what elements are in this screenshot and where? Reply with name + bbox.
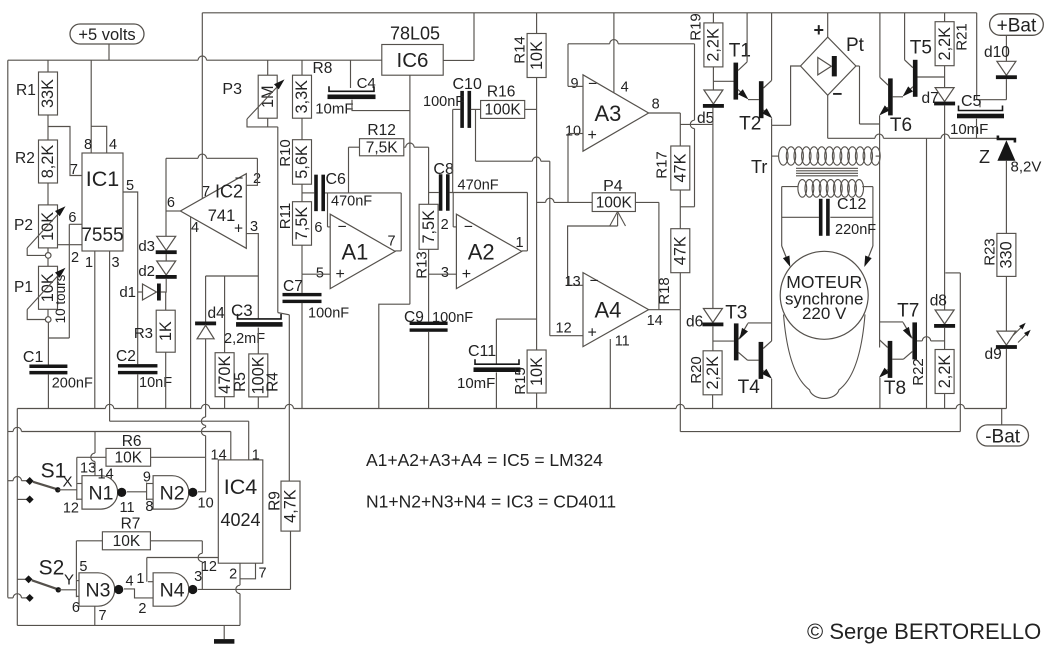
wire R3 to 0V: [165, 352, 167, 408]
svg-text:T6: T6: [890, 115, 912, 136]
svg-text:13: 13: [565, 274, 581, 290]
ground symbol: [223, 625, 225, 639]
svg-text:N1+N2+N3+N4 = IC3 = CD4011: N1+N2+N3+N4 = IC3 = CD4011: [366, 492, 616, 512]
svg-text:+5 volts: +5 volts: [78, 26, 135, 44]
op-amp A3: [583, 75, 649, 151]
svg-text:5: 5: [126, 178, 134, 194]
resistor R13: [419, 204, 438, 249]
wire C3 to R4: [257, 328, 259, 354]
svg-text:C6: C6: [326, 171, 347, 188]
svg-text:IC1: IC1: [86, 167, 119, 191]
IC1 7555: [82, 153, 123, 251]
svg-text:2,2K: 2,2K: [705, 28, 723, 62]
wire R4 to 0V: [257, 397, 259, 409]
svg-text:4: 4: [109, 137, 117, 153]
svg-text:200nF: 200nF: [52, 376, 93, 392]
svg-text:T3: T3: [725, 303, 747, 324]
svg-text:10mF: 10mF: [315, 101, 353, 118]
LED d9: [997, 331, 1016, 345]
resistor R20: [703, 351, 722, 395]
svg-text:4: 4: [191, 220, 199, 236]
wire +Bat to d10: [1005, 35, 1007, 61]
wire +5V rail: [8, 59, 198, 61]
svg-text:T2: T2: [739, 114, 761, 135]
svg-text:−: −: [590, 273, 599, 290]
wire d7 down to d8: [944, 105, 946, 310]
svg-text:C10: C10: [453, 76, 482, 93]
resistor R21: [944, 13, 946, 22]
wire IC4 pin 2 ground: [239, 563, 241, 585]
wire R7 right to N4 out: [150, 540, 202, 542]
transistor T3: [734, 323, 739, 360]
capacitor C3: [257, 276, 259, 319]
capacitor C7: [301, 274, 303, 293]
wire C11 branch: [496, 318, 536, 320]
svg-text:470nF: 470nF: [331, 194, 372, 210]
svg-text:220nF: 220nF: [835, 222, 876, 238]
svg-text:10K: 10K: [113, 533, 141, 550]
svg-text:10K: 10K: [115, 450, 143, 467]
svg-text:10: 10: [565, 124, 581, 140]
svg-text:T4: T4: [738, 377, 761, 398]
svg-text:d10: d10: [984, 44, 1010, 61]
wire R23 to d9: [1005, 276, 1007, 331]
capacitor C8: [429, 192, 439, 194]
svg-text:C7: C7: [283, 278, 303, 295]
svg-text:7: 7: [70, 162, 78, 178]
svg-text:−: −: [235, 170, 244, 187]
wire IC2 output node: [166, 210, 180, 212]
svg-text:47K: 47K: [672, 236, 690, 265]
svg-text:10K: 10K: [528, 357, 546, 386]
svg-text:741: 741: [208, 207, 236, 225]
capacitor C9: [410, 322, 448, 325]
svg-text:C11: C11: [468, 343, 496, 360]
wire P4 left stub: [537, 201, 546, 203]
node +Bat: [990, 14, 1044, 36]
wire C10 left to A2 node: [453, 108, 461, 110]
svg-text:N1: N1: [89, 482, 114, 504]
wire motor lead arrows: [782, 246, 789, 263]
wire R18 to A4 out: [679, 273, 681, 310]
wire A3 pin 9 feedback: [568, 85, 583, 87]
svg-text:R20: R20: [688, 356, 705, 384]
svg-text:R8: R8: [313, 60, 333, 77]
svg-text:10K: 10K: [39, 212, 57, 241]
wire R21 to d7: [944, 66, 946, 88]
svg-text:11: 11: [120, 500, 135, 516]
capacitor C1: [29, 365, 67, 369]
capacitor C11: [475, 359, 519, 364]
resistor R1: [39, 72, 58, 115]
svg-text:220 V: 220 V: [802, 304, 847, 323]
wire A3 pin10 drop: [567, 134, 569, 203]
diode d3: [157, 236, 176, 250]
svg-text:2,2K: 2,2K: [704, 356, 722, 390]
svg-text:7: 7: [259, 566, 267, 582]
resistor R9: [281, 481, 300, 531]
svg-text:5,6K: 5,6K: [293, 145, 311, 179]
wire +Bat top rail: [202, 12, 976, 14]
svg-text:1: 1: [136, 571, 144, 587]
motor MOTEUR synchrone 220V: [780, 251, 868, 339]
svg-text:10 tours: 10 tours: [53, 274, 68, 323]
wire A3 output: [649, 112, 681, 114]
wire IC6 input from +Bat: [443, 59, 474, 61]
potentiometer P2: [39, 205, 58, 248]
IC6 78L05: [382, 45, 443, 76]
wire d5 to d6 (A3 drive line): [712, 108, 714, 309]
wire P4 wiper to A4 pin13: [617, 214, 619, 227]
wire IC1 pin 3 down: [109, 251, 111, 421]
resistor R7: [102, 532, 150, 550]
svg-text:A1: A1: [341, 239, 368, 264]
svg-text:R4: R4: [265, 372, 282, 392]
wire A1 pin 5: [302, 273, 330, 275]
capacitor C12: [782, 216, 819, 218]
wire d10 to node: [1005, 79, 1007, 100]
svg-text:1K: 1K: [157, 321, 175, 341]
capacitor C4: [350, 60, 352, 88]
svg-text:10mF: 10mF: [457, 375, 495, 392]
svg-text:4: 4: [621, 80, 629, 96]
wire P4 right to A4 output: [635, 201, 659, 203]
svg-text:2: 2: [441, 217, 449, 233]
svg-text:4024: 4024: [220, 510, 260, 530]
transistor T1: [734, 63, 739, 100]
resistor R18: [671, 229, 690, 273]
svg-text:9: 9: [571, 76, 579, 92]
wire A2 output + feedback: [522, 250, 528, 252]
wire P1 to C1: [47, 322, 49, 364]
diode d4: [195, 322, 216, 326]
svg-text:100nF: 100nF: [308, 306, 349, 322]
node P2-P1 junction circle: [45, 253, 51, 259]
svg-text:+: +: [234, 221, 243, 238]
wire A4 out lower run to right: [680, 431, 960, 433]
wire d8 to T7 base / R22: [944, 328, 946, 350]
capacitor C2: [118, 364, 158, 367]
wire A3 out branch to d5-d6 line: [680, 123, 713, 125]
wire R17-R18: [679, 190, 681, 229]
resistor R8: [301, 60, 303, 75]
svg-text:R11: R11: [277, 203, 294, 229]
wire R2-P2: [47, 183, 49, 205]
diode d8: [935, 310, 954, 324]
wire IC1 pin 4: [91, 126, 107, 153]
svg-text:R19: R19: [687, 13, 704, 41]
svg-text:2: 2: [71, 250, 79, 266]
diode d10: [997, 61, 1016, 75]
wire A3 pin 10 stub: [568, 133, 583, 135]
svg-text:d5: d5: [697, 110, 714, 127]
wire A4 output: [649, 309, 681, 311]
wire bridge top to +Bat rail: [827, 13, 829, 37]
svg-text:d7: d7: [922, 90, 939, 107]
wire 2+6 node down to C1 top: [68, 245, 70, 338]
resistor R15: [527, 350, 546, 393]
svg-text:10K: 10K: [528, 41, 546, 70]
svg-text:7,5K: 7,5K: [293, 207, 311, 241]
svg-text:10mF: 10mF: [950, 121, 988, 138]
wire d9 to 0V rail end: [1005, 349, 1007, 409]
svg-text:C2: C2: [116, 348, 136, 365]
wire A4 pin 12: [550, 335, 583, 337]
wire d4-pin3 net: [206, 275, 259, 277]
wire C10 right to R16: [471, 108, 481, 110]
transistor T2: [759, 81, 764, 118]
svg-text:10nF: 10nF: [139, 375, 172, 391]
svg-text:R6: R6: [122, 433, 142, 450]
svg-text:1: 1: [85, 255, 93, 271]
svg-text:R16: R16: [487, 84, 515, 101]
wire R11 to pin5 junction: [301, 245, 303, 274]
svg-text:47K: 47K: [672, 153, 690, 182]
wire secondary right down: [872, 187, 874, 246]
diode d5: [704, 90, 723, 104]
wire R8-R10: [301, 118, 303, 140]
svg-text:4: 4: [126, 574, 134, 590]
resistor R16: [481, 101, 525, 119]
svg-text:Z: Z: [979, 147, 990, 167]
wire A2 pin 3: [429, 273, 457, 275]
svg-text:Y: Y: [64, 572, 74, 589]
wire digital bottom ground: [17, 624, 240, 626]
svg-text:R12: R12: [367, 122, 395, 139]
svg-text:T5: T5: [910, 38, 932, 59]
svg-text:d4: d4: [208, 305, 226, 322]
wire R13 to C9 with A2 pin3 tee: [428, 249, 430, 321]
svg-text:3: 3: [112, 255, 120, 271]
svg-text:d2: d2: [138, 263, 155, 280]
svg-text:6: 6: [68, 210, 76, 226]
svg-text:−: −: [833, 85, 843, 104]
svg-text:C8: C8: [433, 161, 454, 178]
wire 0V bottom rail: [17, 408, 105, 410]
svg-text:1: 1: [252, 448, 260, 464]
svg-text:12: 12: [556, 321, 572, 337]
wire N2 out stub: [198, 491, 206, 493]
wire d6 to T3 base / R20: [712, 326, 714, 351]
potentiometer P1: [39, 266, 58, 309]
wire N4 out to R9: [198, 588, 291, 590]
transistor T8: [888, 341, 893, 378]
svg-text:6: 6: [167, 195, 175, 211]
svg-text:3,3K: 3,3K: [293, 80, 311, 114]
svg-text:5: 5: [79, 559, 87, 575]
wire VDD line to IC4 pin 14: [8, 431, 13, 433]
wire N1 out to N2: [127, 491, 147, 493]
svg-text:+: +: [814, 20, 825, 40]
svg-text:−: −: [464, 219, 473, 236]
wire A4 pin12 net: [475, 109, 477, 161]
svg-text:d3: d3: [138, 238, 155, 255]
svg-text:R22: R22: [910, 358, 927, 386]
svg-text:R2: R2: [15, 150, 35, 167]
svg-text:R21: R21: [953, 23, 970, 51]
wire bias line down: [536, 78, 538, 351]
svg-text:A2: A2: [468, 239, 495, 264]
svg-text:R7: R7: [121, 516, 141, 533]
wire d3-d2: [165, 254, 167, 261]
wire P3 down the middle: [277, 127, 279, 313]
wire T2 emitter to bridge and primary: [771, 118, 773, 125]
wire right power column to primary/T7/T8: [879, 124, 881, 348]
svg-text:1: 1: [516, 235, 524, 251]
resistor R11: [293, 202, 312, 246]
wire R1 top: [47, 60, 49, 72]
svg-text:d1: d1: [119, 284, 136, 301]
wire R12 right to R13: [404, 146, 406, 148]
wire minus line: [828, 137, 875, 139]
wire IC1 pin3 to IC4 pin 1: [110, 420, 249, 422]
wire IC1 pin 1 to 0V: [94, 251, 96, 409]
wire IC4 pin 7 ground: [240, 563, 256, 579]
wire N3 pin 7 ground: [94, 606, 96, 625]
wire R19 to d5 / T1 base: [712, 67, 714, 90]
svg-text:7555: 7555: [81, 225, 123, 246]
svg-text:8,2K: 8,2K: [39, 145, 57, 179]
svg-text:Tr: Tr: [751, 157, 767, 177]
node P1 bottom circle: [45, 317, 51, 323]
resistor R5: [215, 353, 234, 397]
svg-text:C1: C1: [23, 349, 44, 366]
diode d2: [157, 261, 176, 275]
wire IC6 ground pin: [409, 75, 411, 304]
resistor R12: [360, 139, 404, 156]
svg-text:A4: A4: [594, 298, 621, 323]
svg-text:7,5K: 7,5K: [366, 139, 399, 156]
svg-text:C3: C3: [231, 301, 253, 320]
svg-text:7: 7: [99, 608, 107, 624]
wire R7 left to N3 inputs: [76, 540, 102, 542]
svg-text:100nF: 100nF: [432, 310, 473, 326]
transistor T5: [913, 60, 918, 97]
svg-text:100K: 100K: [596, 194, 633, 211]
op-amp IC2 741: [180, 174, 246, 249]
resistor R2: [39, 140, 58, 183]
wire R12 left to A1 node: [349, 146, 360, 148]
svg-text:A3: A3: [594, 101, 621, 126]
svg-text:8: 8: [652, 97, 660, 113]
svg-text:−: −: [338, 219, 347, 236]
svg-text:R15: R15: [512, 367, 529, 395]
svg-text:R1: R1: [16, 82, 36, 99]
wire bridge minus down to 0V rail: [926, 138, 928, 408]
svg-text:100K: 100K: [485, 102, 522, 119]
capacitor C10: [460, 91, 464, 128]
svg-text:C9: C9: [404, 309, 424, 326]
wire d2 to R3 junction: [165, 279, 168, 292]
svg-text:R13: R13: [414, 251, 431, 279]
svg-text:11: 11: [615, 334, 630, 350]
svg-text:R10: R10: [277, 139, 294, 167]
wire +5V left border: [7, 60, 9, 597]
svg-text:P2: P2: [14, 217, 33, 234]
svg-text:-Bat: -Bat: [985, 426, 1021, 447]
wire d4 down to digital: [205, 339, 207, 417]
svg-text:T7: T7: [897, 301, 919, 322]
wire junction to IC1 pin 7: [48, 127, 82, 176]
svg-text:−: −: [588, 76, 597, 93]
svg-text:33K: 33K: [39, 79, 57, 108]
svg-text:7,5K: 7,5K: [420, 210, 438, 244]
wire R5 to 0V: [224, 397, 226, 409]
wire N3 out to N4: [124, 589, 153, 598]
svg-text:N3: N3: [86, 580, 111, 602]
svg-text:+: +: [588, 325, 597, 342]
svg-text:S2: S2: [39, 557, 65, 580]
wire IC2 feedback to pin 2: [166, 157, 198, 159]
wire C8 right / A2 pin2 node: [450, 192, 528, 194]
wire R16 right to bias line: [525, 108, 537, 110]
svg-text:IC4: IC4: [224, 475, 258, 499]
svg-text:d8: d8: [930, 293, 947, 310]
svg-text:+: +: [462, 266, 471, 283]
resistor R3: [165, 292, 167, 310]
svg-text:3: 3: [441, 265, 449, 281]
potentiometer P4: [592, 193, 635, 212]
svg-text:13: 13: [80, 461, 96, 477]
wire +5 volts stub: [108, 44, 110, 60]
potentiometer P3: [267, 60, 269, 75]
svg-text:A1+A2+A3+A4 = IC5 = LM324: A1+A2+A3+A4 = IC5 = LM324: [366, 450, 603, 470]
svg-text:9: 9: [143, 470, 151, 486]
resistor R4: [249, 354, 268, 397]
wire secondary left down: [781, 187, 783, 246]
wire R9 to N4 output: [290, 531, 292, 589]
svg-text:12: 12: [201, 559, 217, 575]
svg-text:R3: R3: [134, 325, 153, 342]
resistor R17: [671, 146, 690, 190]
capacitor C5: [979, 100, 981, 108]
svg-text:10: 10: [198, 496, 214, 512]
svg-text:X: X: [63, 474, 73, 491]
svg-text:2: 2: [229, 567, 237, 583]
svg-text:470nF: 470nF: [458, 178, 499, 194]
resistor R23: [997, 233, 1016, 276]
svg-text:78L05: 78L05: [390, 24, 440, 44]
svg-text:12: 12: [63, 501, 79, 517]
wire C6 right / A1 pin6 node: [325, 192, 401, 194]
NAND gate N1: [82, 476, 118, 509]
svg-text:+: +: [336, 266, 345, 283]
transistor T7: [912, 322, 917, 359]
svg-text:14: 14: [647, 313, 663, 329]
wire R10-R11 junction: [301, 184, 303, 202]
svg-text:C5: C5: [961, 93, 982, 110]
op-amp A1: [330, 214, 395, 288]
svg-text:C12: C12: [837, 196, 866, 213]
transformer Tr secondary: [798, 180, 807, 198]
node +5 volts: [70, 24, 144, 44]
wire IC2 V- to 0V: [190, 217, 192, 409]
svg-text:2,2K: 2,2K: [936, 355, 954, 389]
op-amp A4: [583, 273, 649, 347]
node -Bat: [977, 425, 1029, 446]
svg-text:14: 14: [98, 467, 114, 483]
wire IC2 pin 3: [246, 234, 258, 276]
svg-text:R5: R5: [232, 372, 249, 392]
svg-text:14: 14: [211, 448, 227, 464]
wire IC1 pins 2+6 bracket: [69, 223, 82, 225]
resistor R14: [527, 34, 546, 78]
bridge rectifier Pt: [801, 37, 856, 95]
wire R1-R2 junction: [47, 115, 49, 140]
wire A4 out down to lower run: [679, 310, 681, 432]
wire R5 riser: [224, 276, 226, 353]
svg-text:d9: d9: [985, 346, 1002, 363]
